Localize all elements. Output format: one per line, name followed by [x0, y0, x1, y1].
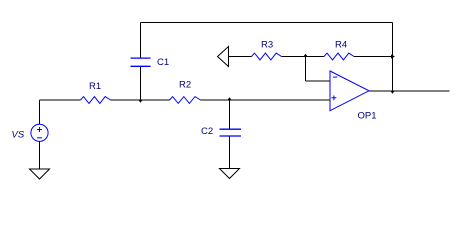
- svg-text:R4: R4: [335, 40, 347, 51]
- svg-text:R1: R1: [89, 81, 101, 92]
- svg-text:OP1: OP1: [358, 111, 377, 122]
- svg-text:C2: C2: [201, 126, 213, 137]
- svg-text:C1: C1: [157, 57, 169, 68]
- svg-text:R3: R3: [261, 39, 273, 50]
- svg-text:R2: R2: [179, 80, 191, 91]
- svg-text:VS: VS: [12, 130, 25, 141]
